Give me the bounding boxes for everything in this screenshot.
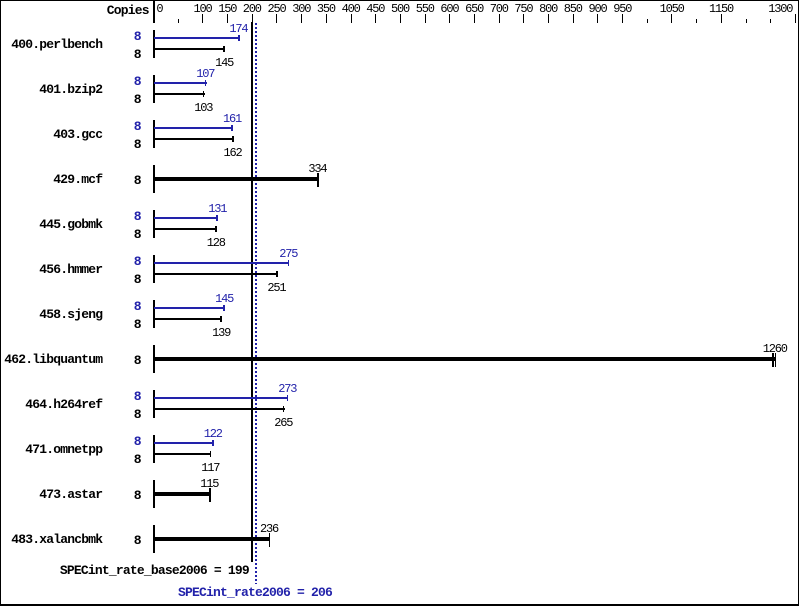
400.perlbench peak bar cap — [238, 35, 240, 41]
base ref line (199) — [251, 22, 253, 562]
464.h264ref peak bar cap — [287, 395, 289, 401]
400.perlbench base copies 8 — [134, 48, 141, 61]
axis label 500 — [391, 3, 409, 15]
axis major tick 400 — [351, 14, 352, 23]
400.perlbench peak bar — [154, 37, 239, 39]
471.omnetpp peak bar — [154, 442, 214, 444]
456.hmmer base bar — [154, 273, 277, 275]
400.perlbench base bar cap — [223, 46, 225, 52]
403.gcc base bar — [154, 138, 234, 140]
471.omnetpp base value — [201, 462, 219, 474]
445.gobmk base bar — [154, 228, 217, 230]
429.mcf copies 8 — [134, 174, 141, 187]
400.perlbench peak copies 8 — [134, 30, 141, 43]
471.omnetpp base bar cap — [210, 451, 212, 457]
axis label 750 — [514, 3, 532, 15]
473.astar value — [200, 478, 218, 490]
445.gobmk peak bar — [154, 217, 218, 219]
400.perlbench axis stub — [153, 30, 155, 57]
403.gcc base copies 8 — [134, 138, 141, 151]
benchmark label 483.xalancbmk — [11, 533, 102, 546]
483.xalancbmk value — [260, 523, 278, 535]
benchmark label 458.sjeng — [39, 308, 102, 321]
429.mcf bar cap — [317, 173, 319, 187]
456.hmmer peak value — [279, 248, 297, 260]
400.perlbench base bar — [154, 48, 225, 50]
483.xalancbmk bar cap — [269, 533, 271, 547]
axis label 450 — [366, 3, 384, 15]
471.omnetpp peak copies 8 — [134, 435, 141, 448]
462.libquantum bar — [154, 357, 776, 361]
axis major tick 700 — [499, 14, 500, 23]
473.astar copies 8 — [134, 489, 141, 502]
464.h264ref base bar — [154, 408, 284, 410]
464.h264ref peak value — [278, 383, 296, 395]
445.gobmk base value — [207, 237, 225, 249]
benchmark label 471.omnetpp — [25, 443, 102, 456]
458.sjeng base value — [212, 327, 230, 339]
403.gcc peak copies 8 — [134, 120, 141, 133]
axis major tick 800 — [548, 14, 549, 23]
axis label 650 — [465, 3, 483, 15]
axis label 1050 — [660, 3, 684, 15]
peak result text — [178, 586, 332, 599]
483.xalancbmk bar — [154, 537, 270, 541]
401.bzip2 peak bar — [154, 82, 206, 84]
445.gobmk peak value — [208, 203, 226, 215]
axis major tick 100 — [202, 14, 203, 23]
axis major tick 200 — [252, 14, 253, 23]
483.xalancbmk axis stub — [153, 525, 155, 552]
471.omnetpp peak value — [204, 428, 222, 440]
473.astar bar cap — [209, 488, 211, 502]
458.sjeng base copies 8 — [134, 318, 141, 331]
axis major tick 450 — [375, 14, 376, 23]
462.libquantum copies 8 — [134, 354, 141, 367]
400.perlbench base value — [215, 57, 233, 69]
458.sjeng peak value — [215, 293, 233, 305]
483.xalancbmk copies 8 — [134, 534, 141, 547]
axis major tick 650 — [474, 14, 475, 23]
axis major tick 1150 — [721, 14, 722, 23]
458.sjeng axis stub — [153, 300, 155, 327]
axis major tick 1300 — [795, 14, 796, 23]
429.mcf bar — [154, 177, 318, 181]
axis label 100 — [194, 3, 212, 15]
456.hmmer base value — [267, 282, 285, 294]
429.mcf value — [308, 163, 326, 175]
464.h264ref peak bar — [154, 397, 288, 399]
benchmark label 473.astar — [39, 488, 102, 501]
axis major tick 550 — [425, 14, 426, 23]
benchmark label 462.libquantum — [4, 353, 102, 366]
axis label 900 — [589, 3, 607, 15]
471.omnetpp base bar — [154, 453, 211, 455]
axis minor tick 1200 — [746, 19, 747, 24]
axis major tick 950 — [622, 14, 623, 23]
464.h264ref base copies 8 — [134, 408, 141, 421]
456.hmmer base copies 8 — [134, 273, 141, 286]
axis minor tick 1250 — [770, 19, 771, 24]
403.gcc base value — [224, 147, 242, 159]
axis label 300 — [292, 3, 310, 15]
456.hmmer peak bar — [154, 262, 289, 264]
benchmark label 456.hmmer — [39, 263, 102, 276]
401.bzip2 base bar — [154, 93, 204, 95]
axis label 150 — [218, 3, 236, 15]
401.bzip2 base value — [194, 102, 212, 114]
401.bzip2 base copies 8 — [134, 93, 141, 106]
peak ref dotted line (206) — [255, 23, 257, 584]
axis label 200 — [243, 3, 261, 15]
axis major tick 250 — [276, 14, 277, 23]
403.gcc base bar cap — [232, 136, 234, 142]
403.gcc peak value — [223, 113, 241, 125]
axis major tick 150 — [227, 14, 228, 23]
401.bzip2 base bar cap — [203, 91, 205, 97]
403.gcc axis stub — [153, 120, 155, 147]
axis label 350 — [317, 3, 335, 15]
400.perlbench peak value — [229, 23, 247, 35]
axis major tick 500 — [400, 14, 401, 23]
471.omnetpp peak bar cap — [212, 440, 214, 446]
axis label 700 — [490, 3, 508, 15]
axis major tick 600 — [449, 14, 450, 23]
axis label 800 — [539, 3, 557, 15]
axis label 1150 — [709, 3, 733, 15]
445.gobmk peak bar cap — [216, 215, 218, 221]
464.h264ref base bar cap — [283, 406, 285, 412]
401.bzip2 peak value — [196, 68, 214, 80]
462.libquantum bar cap 2 — [775, 353, 777, 367]
axis label 950 — [613, 3, 631, 15]
464.h264ref base value — [274, 417, 292, 429]
axis label 600 — [440, 3, 458, 15]
473.astar bar — [154, 492, 210, 496]
axis label 250 — [268, 3, 286, 15]
462.libquantum value — [763, 343, 787, 355]
458.sjeng peak bar cap — [223, 305, 225, 311]
base result text — [60, 564, 249, 577]
axis major tick 900 — [597, 14, 598, 23]
456.hmmer base bar cap — [276, 271, 278, 277]
464.h264ref peak copies 8 — [134, 390, 141, 403]
445.gobmk peak copies 8 — [134, 210, 141, 223]
axis major tick 1050 — [671, 14, 672, 23]
axis header vertical line — [153, 1, 155, 23]
axis minor tick 50 — [178, 19, 179, 24]
401.bzip2 peak bar cap — [205, 80, 207, 86]
axis minor tick 1000 — [647, 19, 648, 24]
456.hmmer peak copies 8 — [134, 255, 141, 268]
445.gobmk base copies 8 — [134, 228, 141, 241]
445.gobmk axis stub — [153, 210, 155, 237]
403.gcc peak bar cap — [231, 125, 233, 131]
benchmark label 445.gobmk — [39, 218, 102, 231]
471.omnetpp axis stub — [153, 435, 155, 462]
axis label 850 — [564, 3, 582, 15]
473.astar axis stub — [153, 480, 155, 507]
456.hmmer peak bar cap — [288, 260, 290, 266]
axis label 400 — [342, 3, 360, 15]
benchmark label 400.perlbench — [11, 38, 102, 51]
456.hmmer axis stub — [153, 255, 155, 282]
axis major tick 350 — [326, 14, 327, 23]
403.gcc peak bar — [154, 127, 233, 129]
copies header — [107, 4, 149, 17]
458.sjeng base bar cap — [220, 316, 222, 322]
benchmark label 403.gcc — [53, 128, 102, 141]
benchmark label 401.bzip2 — [39, 83, 102, 96]
462.libquantum axis stub — [153, 345, 155, 372]
464.h264ref axis stub — [153, 390, 155, 417]
458.sjeng peak copies 8 — [134, 300, 141, 313]
axis major tick 850 — [573, 14, 574, 23]
axis major tick 300 — [301, 14, 302, 23]
429.mcf axis stub — [153, 165, 155, 192]
462.libquantum bar cap 1 — [772, 353, 774, 367]
445.gobmk base bar cap — [215, 226, 217, 232]
401.bzip2 peak copies 8 — [134, 75, 141, 88]
axis label 550 — [416, 3, 434, 15]
axis minor tick 1100 — [696, 19, 697, 24]
benchmark label 464.h264ref — [25, 398, 102, 411]
axis label 0 — [156, 3, 162, 15]
axis major tick 750 — [523, 14, 524, 23]
401.bzip2 axis stub — [153, 75, 155, 102]
axis label 1300 — [768, 3, 792, 15]
458.sjeng base bar — [154, 318, 222, 320]
458.sjeng peak bar — [154, 307, 225, 309]
471.omnetpp base copies 8 — [134, 453, 141, 466]
benchmark label 429.mcf — [53, 173, 102, 186]
